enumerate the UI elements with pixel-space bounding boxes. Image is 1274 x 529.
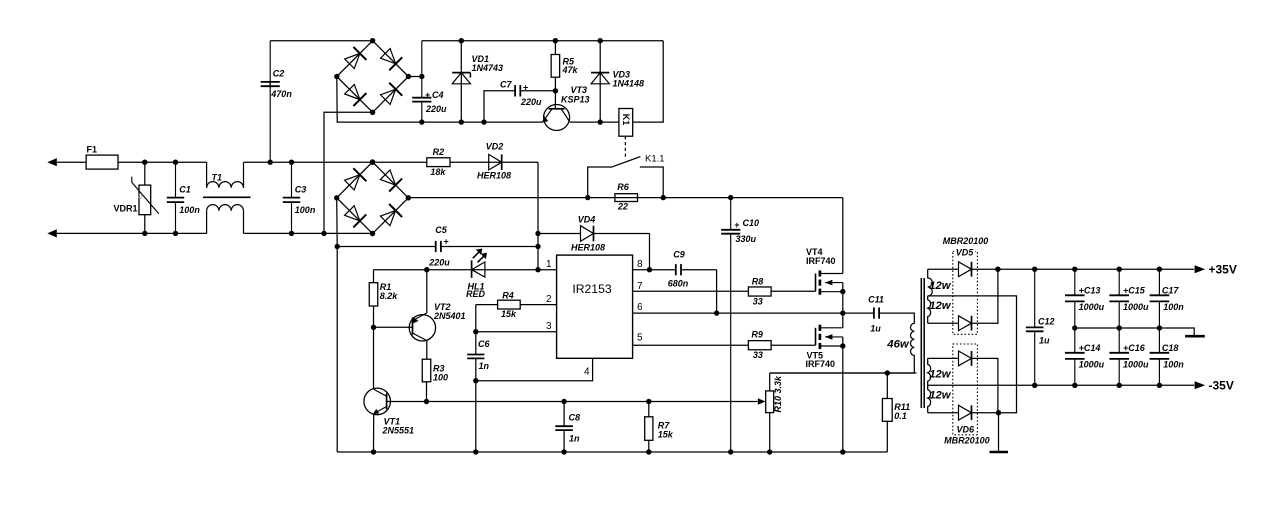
node +35V — [1195, 265, 1206, 273]
diode VD5a — [928, 268, 959, 270]
wire pin7 row — [633, 290, 816, 292]
zener VD1 — [460, 41, 462, 122]
diode VD3 — [599, 41, 601, 122]
wire VCC node to pin1 — [374, 269, 557, 271]
transistor VT5 IRF740 — [815, 328, 817, 345]
wire pin4 — [476, 358, 593, 380]
resistor R4 — [498, 300, 521, 309]
svg-text:T1: T1 — [212, 173, 223, 183]
svg-text:IRF740: IRF740 — [806, 359, 836, 369]
resistor R7 — [648, 402, 650, 417]
wire primary ground rail — [337, 451, 887, 453]
svg-text:100n: 100n — [295, 205, 316, 215]
svg-text:46w: 46w — [886, 338, 910, 350]
svg-text:22: 22 — [617, 202, 628, 212]
wire bridge1 minus down — [337, 77, 422, 123]
transformer secondary W1 12w — [928, 269, 933, 296]
svg-text:C7: C7 — [500, 80, 512, 90]
transistor VT3 — [544, 105, 570, 131]
svg-text:1000u: 1000u — [1079, 302, 1105, 312]
wire VCC vertical — [537, 162, 539, 270]
capacitor C17 — [1158, 269, 1160, 295]
diode VD6a — [928, 357, 959, 359]
transistor VT4 IRF740 — [815, 274, 817, 292]
svg-text:C3: C3 — [295, 185, 307, 195]
svg-text:12w: 12w — [929, 280, 952, 292]
svg-text:VD4: VD4 — [578, 214, 596, 224]
wire pin6 row — [633, 312, 874, 314]
svg-text:100: 100 — [433, 373, 448, 383]
capacitor C1 — [175, 162, 177, 197]
svg-text:C5: C5 — [435, 225, 447, 235]
capacitor C10 — [730, 198, 732, 230]
svg-text:R10 3.3k: R10 3.3k — [773, 375, 783, 413]
svg-text:IR2153: IR2153 — [572, 282, 612, 296]
resistor R9 — [748, 341, 771, 350]
svg-text:VD6: VD6 — [957, 424, 976, 434]
svg-text:330u: 330u — [736, 234, 757, 244]
svg-text:C6: C6 — [478, 339, 490, 349]
svg-text:R8: R8 — [752, 276, 764, 286]
svg-text:HER108: HER108 — [571, 242, 605, 252]
node -35V — [1195, 381, 1206, 389]
svg-text:VD2: VD2 — [486, 141, 504, 151]
dual diode VD5 box — [953, 251, 978, 334]
dual diode VD6 box — [953, 344, 978, 435]
svg-text:220u: 220u — [428, 258, 450, 268]
wire aux top rail — [422, 40, 663, 42]
svg-text:33: 33 — [753, 296, 763, 306]
svg-text:470n: 470n — [270, 89, 292, 99]
varistor VDR1 — [144, 162, 146, 233]
capacitor C13 — [1074, 269, 1076, 295]
svg-text:47k: 47k — [562, 65, 579, 75]
junction dots input rows — [142, 160, 147, 165]
svg-text:+: + — [734, 220, 739, 230]
svg-text:C17: C17 — [1162, 285, 1180, 295]
svg-text:VD5: VD5 — [956, 248, 975, 258]
transistor VT1 — [364, 388, 391, 415]
relay coil K1 — [619, 109, 633, 137]
capacitor C11 — [873, 308, 875, 319]
capacitor C6 — [475, 305, 477, 355]
svg-text:1u: 1u — [870, 324, 881, 334]
svg-text:3: 3 — [546, 321, 552, 332]
choke T1 — [206, 162, 208, 188]
capacitor C3 — [291, 162, 293, 197]
svg-text:U: U — [138, 195, 142, 201]
transistor VT2 — [374, 326, 413, 328]
svg-text:7: 7 — [637, 281, 643, 292]
capacitor C2 — [269, 82, 271, 162]
svg-text:2N5551: 2N5551 — [382, 426, 415, 436]
svg-text:8: 8 — [637, 259, 643, 270]
svg-text:VDR1: VDR1 — [113, 203, 137, 213]
svg-text:+C13: +C13 — [1079, 285, 1101, 295]
wire pin2 row — [476, 304, 557, 306]
svg-text:220u: 220u — [520, 97, 542, 107]
svg-text:6: 6 — [637, 302, 643, 313]
svg-text:1N4743: 1N4743 — [472, 63, 504, 73]
diode VD4 — [538, 233, 581, 235]
ground secondary — [998, 413, 1000, 452]
wire pin5 row — [633, 344, 816, 346]
potentiometer R10 — [758, 398, 766, 404]
fuse F1 — [86, 155, 118, 169]
svg-text:C1: C1 — [179, 185, 191, 195]
svg-text:2: 2 — [546, 294, 552, 305]
wire primary return row — [770, 372, 917, 374]
svg-text:+35V: +35V — [1209, 263, 1237, 277]
svg-text:15k: 15k — [501, 309, 517, 319]
svg-text:+C15: +C15 — [1123, 285, 1146, 295]
junction dots output — [995, 267, 1000, 272]
svg-text:5: 5 — [637, 333, 643, 344]
transformer secondary W4 12w — [928, 385, 931, 412]
ground output — [1185, 335, 1205, 338]
mains input arrow L — [47, 158, 57, 166]
resistor R5 — [554, 41, 556, 55]
capacitor C12 — [1034, 269, 1036, 327]
wire aux bottom rail left — [422, 121, 543, 123]
svg-text:K1: K1 — [621, 114, 631, 126]
svg-text:1: 1 — [546, 259, 552, 270]
svg-text:1N4148: 1N4148 — [613, 78, 645, 88]
capacitor C4 — [421, 41, 423, 98]
transformer core — [920, 278, 922, 408]
wire bridge1 plus to C4 — [408, 76, 421, 78]
mains input arrow N — [47, 229, 57, 237]
wire -35 rail — [928, 384, 1194, 386]
wire main DC bus — [408, 197, 843, 199]
wire mains line L — [56, 161, 207, 163]
capacitor C16 — [1118, 328, 1120, 353]
transformer TR primary 46w — [879, 313, 914, 373]
wire VT1 base row — [387, 401, 758, 403]
svg-text:12w: 12w — [929, 369, 952, 381]
svg-text:C8: C8 — [569, 413, 581, 423]
wire W1W2 center tap — [928, 296, 1017, 413]
svg-text:1u: 1u — [1039, 336, 1050, 346]
svg-text:220u: 220u — [425, 104, 447, 114]
svg-text:8.2k: 8.2k — [380, 291, 399, 301]
svg-text:IRF740: IRF740 — [806, 256, 836, 266]
svg-text:C2: C2 — [273, 69, 285, 79]
resistor R1 — [373, 270, 375, 283]
svg-text:KSP13: KSP13 — [561, 94, 590, 104]
resistor R8 — [748, 287, 771, 296]
svg-text:1000u: 1000u — [1079, 359, 1105, 369]
wire C2 to bridge1 — [270, 40, 372, 42]
svg-text:18k: 18k — [430, 167, 446, 177]
diode VD5b — [928, 322, 959, 324]
svg-text:R4: R4 — [502, 290, 514, 300]
wire K1 to top rail — [633, 41, 664, 122]
svg-text:0.1: 0.1 — [894, 411, 907, 421]
capacitor C18 — [1158, 328, 1160, 353]
svg-text:C9: C9 — [673, 250, 685, 260]
resistor R2 — [427, 158, 450, 167]
wire pin3 row — [476, 331, 557, 333]
svg-text:-35V: -35V — [1209, 379, 1234, 393]
svg-text:+C16: +C16 — [1123, 343, 1146, 353]
svg-text:100n: 100n — [1163, 302, 1184, 312]
wire line to bridge2 — [292, 161, 427, 163]
svg-text:HER108: HER108 — [477, 170, 511, 180]
svg-text:1000u: 1000u — [1123, 359, 1149, 369]
LED HL1 — [471, 260, 473, 277]
diode VD2 — [489, 154, 502, 170]
diode VD6b — [928, 412, 959, 414]
svg-text:100n: 100n — [1163, 359, 1184, 369]
resistor R11 — [886, 373, 888, 399]
svg-text:C18: C18 — [1162, 343, 1179, 353]
capacitor C14 — [1074, 328, 1076, 353]
wire pin8 row + capacitor C9 — [633, 269, 676, 271]
wire R2 to VD2 — [450, 161, 538, 163]
svg-text:+: + — [523, 83, 528, 93]
svg-text:+: + — [425, 90, 430, 100]
svg-text:F1: F1 — [87, 145, 98, 155]
capacitor C7 — [484, 91, 515, 122]
svg-text:1n: 1n — [569, 434, 580, 444]
svg-text:R9: R9 — [751, 330, 763, 340]
transformer secondary W2 12w — [928, 296, 931, 323]
junction dots aux rails — [459, 38, 464, 43]
resistor R6 — [615, 194, 638, 202]
transformer secondary W3 12w — [928, 358, 931, 385]
svg-text:C4: C4 — [432, 90, 444, 100]
svg-text:+: + — [444, 237, 449, 247]
svg-text:MBR20100: MBR20100 — [943, 236, 989, 246]
relay contact K1.1 — [624, 136, 626, 159]
resistor R3 — [422, 359, 431, 382]
capacitor C15 — [1118, 269, 1120, 295]
capacitor C8 — [563, 402, 565, 427]
svg-text:R2: R2 — [433, 147, 445, 157]
svg-text:R6: R6 — [617, 182, 629, 192]
svg-text:C12: C12 — [1038, 317, 1055, 327]
svg-text:12w: 12w — [929, 300, 952, 312]
svg-text:33: 33 — [753, 350, 763, 360]
wire bridge1 AC bottom to line N — [324, 112, 373, 233]
wire output mid rail — [1075, 328, 1194, 336]
svg-text:K1.1: K1.1 — [645, 154, 665, 165]
wire mains line N — [56, 232, 207, 234]
wire bridge2 minus down — [336, 198, 339, 247]
svg-text:4: 4 — [584, 367, 590, 378]
bridge rectifier VDS1 — [337, 41, 373, 77]
svg-text:100n: 100n — [179, 205, 200, 215]
svg-text:C11: C11 — [868, 295, 884, 305]
svg-text:1000u: 1000u — [1123, 302, 1149, 312]
svg-text:15k: 15k — [658, 429, 674, 439]
svg-text:680n: 680n — [668, 279, 689, 289]
svg-text:RED: RED — [466, 289, 486, 299]
svg-text:C10: C10 — [743, 218, 760, 228]
svg-text:+C14: +C14 — [1079, 343, 1101, 353]
svg-text:12w: 12w — [929, 390, 952, 402]
svg-text:1n: 1n — [479, 361, 490, 371]
svg-text:MBR20100: MBR20100 — [944, 435, 990, 445]
op-amp U1 IR2153 — [557, 255, 633, 358]
svg-text:2N5401: 2N5401 — [433, 311, 466, 321]
bridge rectifier VDS2 — [337, 162, 373, 198]
wire aux bottom rail right — [570, 121, 619, 123]
capacitor C5 — [337, 246, 436, 248]
